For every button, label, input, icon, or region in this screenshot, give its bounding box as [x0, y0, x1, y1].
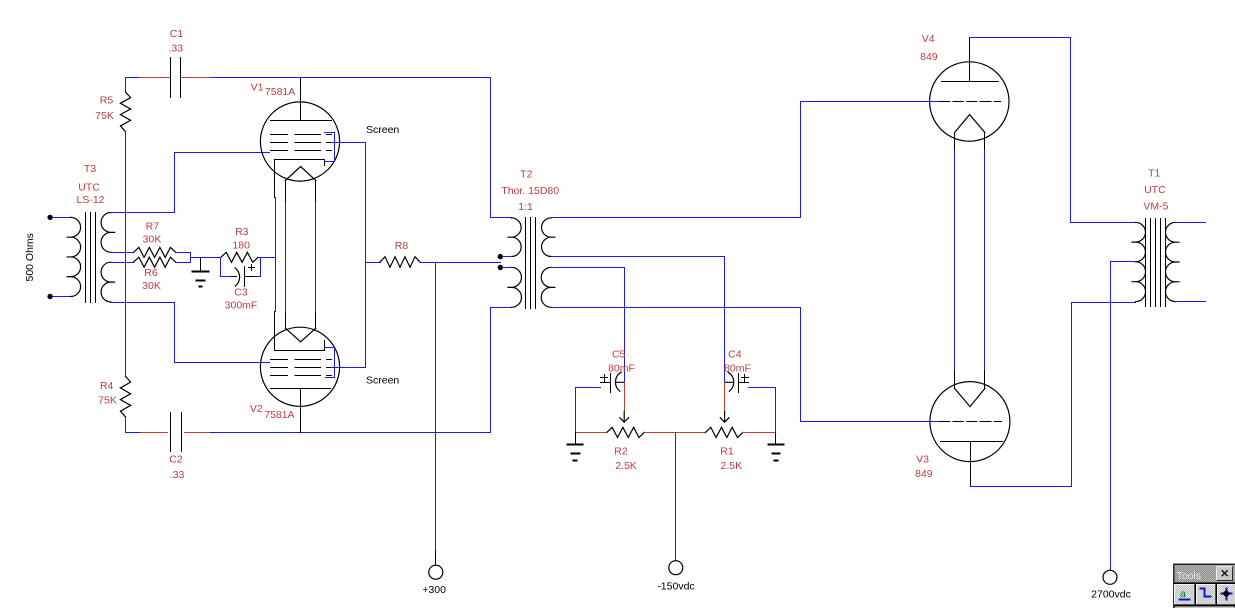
svg-text:V2: V2	[250, 403, 263, 415]
svg-text:R6: R6	[144, 267, 158, 279]
capacitor C1	[171, 58, 181, 98]
ground right	[769, 445, 784, 461]
wire minus150 drop	[675, 433, 677, 561]
wire T1 secondary top	[1176, 222, 1206, 224]
svg-text:R4: R4	[100, 380, 114, 392]
wire T2 sec top to V4 grid	[552, 102, 940, 218]
resistor R8	[380, 257, 420, 267]
V3 plate lead	[970, 442, 972, 487]
capacitor C4 curved plate	[725, 372, 734, 391]
V4 filament	[955, 115, 986, 133]
wire V2 grid riser and grid lead	[175, 303, 270, 363]
wire T2 sec bottom to V3 grid	[552, 308, 940, 422]
wire V4 plate to T1	[970, 38, 1136, 223]
V1 grid row 2	[271, 142, 332, 144]
resistor R2	[607, 427, 645, 437]
wire T2 sec midbottom to C5	[552, 268, 625, 383]
resistor R5	[120, 92, 130, 132]
V2 grid row 2	[271, 367, 332, 369]
T3 core	[86, 213, 96, 303]
svg-text:2700vdc: 2700vdc	[1091, 589, 1131, 601]
svg-text:V4: V4	[922, 33, 935, 45]
node T2 tap dot upper	[498, 254, 503, 259]
wire T2 tap stubs	[503, 257, 512, 268]
wire T2 primary bottom lead	[491, 308, 512, 433]
svg-text:R2: R2	[614, 446, 628, 458]
svg-text:Screen: Screen	[366, 375, 399, 387]
T1 primary bottom winding	[1132, 262, 1146, 302]
capacitor C4 plate	[739, 374, 749, 393]
T1 core	[1146, 219, 1166, 307]
T3 primary winding	[67, 217, 80, 296]
wire bottom bus to T2	[211, 432, 491, 434]
capacitor C2	[171, 413, 182, 452]
R1 wiper arrow	[720, 412, 729, 423]
svg-text:Tools: Tools	[1177, 570, 1202, 582]
ground left	[568, 445, 583, 461]
V2 grid row 3	[271, 375, 332, 377]
svg-text:R7: R7	[146, 221, 160, 233]
capacitor C3 lead left	[232, 276, 237, 278]
svg-text:C3: C3	[234, 287, 248, 299]
svg-text:Thor. 15D80: Thor. 15D80	[501, 185, 559, 197]
V3 filament	[955, 388, 986, 406]
wire filament link right	[315, 203, 317, 312]
wire R7 R6 right ends join	[176, 253, 221, 263]
wire left vertical R5 to R4	[125, 132, 127, 377]
T2 primary bottom winding	[508, 267, 522, 307]
wire red segment left of C1	[140, 77, 171, 79]
V2 screen bracket	[326, 348, 335, 378]
V1 beam plate box	[275, 160, 325, 198]
wire filament pair V4 to V3 left	[955, 151, 985, 371]
wire top bus to T2	[211, 77, 491, 79]
C5 polarity plus	[601, 375, 608, 382]
wire C5 left	[576, 388, 601, 433]
svg-text:849: 849	[920, 51, 938, 63]
wire input stubs	[53, 218, 71, 297]
V2 plate	[271, 388, 331, 390]
Tools title bar	[1174, 565, 1235, 583]
wire red segment right of C1	[182, 77, 211, 79]
capacitor C5 plate	[601, 374, 611, 393]
V4 plate lead	[969, 38, 971, 82]
svg-text:Screen: Screen	[366, 124, 399, 136]
Tools close button	[1217, 567, 1232, 581]
wire T3 bottom terminal to V2 grid riser	[111, 302, 175, 304]
T2 secondary top winding	[542, 218, 555, 257]
tube V3 envelope	[930, 382, 1010, 462]
svg-text:C4: C4	[728, 349, 742, 361]
tube V2 envelope	[260, 327, 339, 406]
svg-text:500 Ohms: 500 Ohms	[24, 233, 36, 281]
wire C4 right	[749, 388, 776, 433]
wire screens vertical	[365, 143, 367, 368]
tube V1 envelope	[260, 102, 339, 181]
wire plus300 drop	[435, 263, 437, 551]
V3 grid	[940, 421, 1002, 423]
T2 core	[526, 218, 536, 309]
svg-text:C5: C5	[612, 349, 626, 361]
wire left vertical R4 to bottom bus	[126, 417, 141, 433]
svg-text:T2: T2	[520, 169, 532, 181]
resistor R6	[134, 257, 176, 267]
V1 screen bracket	[325, 133, 335, 162]
capacitor C3 plate	[245, 267, 255, 287]
svg-text:7581A: 7581A	[264, 409, 294, 421]
svg-text:2.5K: 2.5K	[615, 460, 637, 472]
svg-text:7581A: 7581A	[265, 86, 295, 98]
svg-text:.33: .33	[170, 469, 185, 481]
R2 wiper arrow	[620, 412, 629, 423]
svg-text:75K: 75K	[95, 110, 114, 122]
svg-text:V1: V1	[251, 82, 264, 94]
V1 filament leads	[286, 181, 316, 203]
V2 filament	[285, 328, 315, 342]
wire red segment right of C2	[185, 432, 211, 434]
Tools palette	[1173, 564, 1235, 608]
svg-text:R3: R3	[235, 226, 249, 238]
terminal plus300	[429, 565, 443, 579]
wire R3 C3 right link	[255, 258, 276, 277]
wire C4 wiper red	[724, 383, 726, 412]
V1 grid row 3	[271, 150, 332, 152]
V1 filament	[285, 167, 315, 181]
wire T1 secondary bottom	[1176, 301, 1206, 303]
terminal 2700vdc	[1103, 570, 1117, 584]
resistor R4	[120, 376, 130, 417]
wire V1 cathode to V2 cathode	[275, 198, 277, 312]
terminal plus300 lead	[435, 551, 437, 565]
svg-text:LS-12: LS-12	[76, 194, 104, 206]
V1 grid row 1	[271, 134, 332, 136]
T3 secondary top winding	[101, 213, 115, 253]
svg-text:a: a	[1180, 588, 1186, 600]
wire T3 tap to R7	[111, 252, 134, 254]
svg-text:.33: .33	[168, 42, 183, 54]
wire red segment left of C2	[141, 432, 168, 434]
svg-text:VM-5: VM-5	[1143, 200, 1168, 212]
V4 filament leads	[955, 133, 985, 151]
svg-text:C2: C2	[169, 454, 183, 466]
ground stem at R7 R6	[200, 258, 202, 272]
wire V1 screen tap	[332, 142, 366, 144]
Tools button node	[1218, 584, 1235, 604]
wire R3 C3 left link	[221, 258, 232, 277]
wire V1 grid riser and grid lead	[175, 153, 270, 213]
svg-text:C1: C1	[170, 28, 184, 40]
wire top bus left segment	[126, 78, 140, 93]
svg-text:T3: T3	[84, 163, 96, 175]
wire V2 screen tap	[332, 367, 366, 369]
svg-text:30K: 30K	[143, 234, 162, 246]
node input top dot	[47, 215, 52, 220]
wire R8 to T2 center tap	[421, 262, 501, 264]
V4 plate	[942, 81, 999, 83]
svg-text:30K: 30K	[142, 280, 161, 292]
wire C5 wiper red	[624, 383, 626, 412]
C4 polarity plus	[742, 375, 749, 382]
svg-text:R8: R8	[395, 240, 409, 252]
svg-text:UTC: UTC	[1144, 184, 1166, 196]
wire V3 plate to T1	[971, 303, 1136, 487]
svg-text:+300: +300	[422, 584, 446, 596]
svg-text:180: 180	[232, 240, 250, 252]
Tools second row edge	[1175, 606, 1235, 608]
svg-text:R5: R5	[100, 94, 114, 106]
wire ground to R2 red	[576, 432, 607, 434]
svg-text:T1: T1	[1148, 167, 1160, 179]
T1 primary top winding	[1132, 222, 1145, 261]
svg-text:2.5K: 2.5K	[720, 460, 742, 472]
V1 plate lead	[300, 78, 302, 121]
C3 polarity plus	[249, 265, 255, 271]
wire R1 right red	[743, 432, 776, 434]
ground stem right	[775, 433, 777, 445]
V3 plate	[941, 441, 1003, 443]
svg-text:300mF: 300mF	[225, 299, 258, 311]
svg-text:UTC: UTC	[78, 181, 100, 193]
wire T2 sec midtop to C4	[552, 257, 725, 383]
V2 filament leads	[286, 312, 316, 329]
Tools button a	[1175, 584, 1195, 604]
wire T1 tap to 2700vdc	[1111, 262, 1136, 571]
ground at R7 R6	[193, 272, 209, 287]
svg-text:1:1: 1:1	[518, 201, 533, 213]
T3 secondary bottom winding	[101, 262, 115, 302]
svg-text:80mF: 80mF	[608, 363, 635, 375]
wire T3 tap to R6	[111, 262, 134, 264]
svg-text:R1: R1	[720, 446, 734, 458]
svg-text:75K: 75K	[98, 395, 117, 407]
T2 primary top winding	[508, 218, 521, 257]
node T2 tap dot lower	[498, 265, 503, 270]
wire filament link left	[285, 203, 287, 312]
T2 secondary bottom winding	[541, 267, 555, 307]
V2 plate lead	[300, 389, 302, 433]
resistor R7	[134, 247, 176, 257]
V2 beam plate box	[275, 312, 325, 351]
node input bottom dot	[47, 294, 52, 299]
capacitor C5 curved plate	[615, 372, 624, 391]
V1 plate	[271, 120, 332, 122]
V4 grid	[940, 101, 1001, 103]
Tools button wire	[1196, 584, 1216, 604]
wire screen to R8	[366, 262, 381, 264]
resistor R1	[705, 427, 743, 437]
resistor R3	[221, 252, 258, 262]
wire T2 primary top lead	[491, 78, 512, 218]
V3 filament leads	[955, 371, 985, 389]
svg-text:849: 849	[915, 468, 933, 480]
T1 secondary winding	[1166, 222, 1180, 301]
terminal minus150	[669, 561, 683, 575]
wire R2 to R1 red	[645, 432, 706, 434]
capacitor C3 curved plate	[235, 268, 239, 286]
V2 grid row 1	[271, 359, 332, 361]
svg-text:-150vdc: -150vdc	[657, 581, 694, 593]
wire T3 top terminal to V1 grid riser	[111, 212, 175, 214]
svg-text:V3: V3	[916, 453, 929, 465]
tube V4 envelope	[930, 62, 1009, 141]
ground stem left	[575, 433, 577, 445]
